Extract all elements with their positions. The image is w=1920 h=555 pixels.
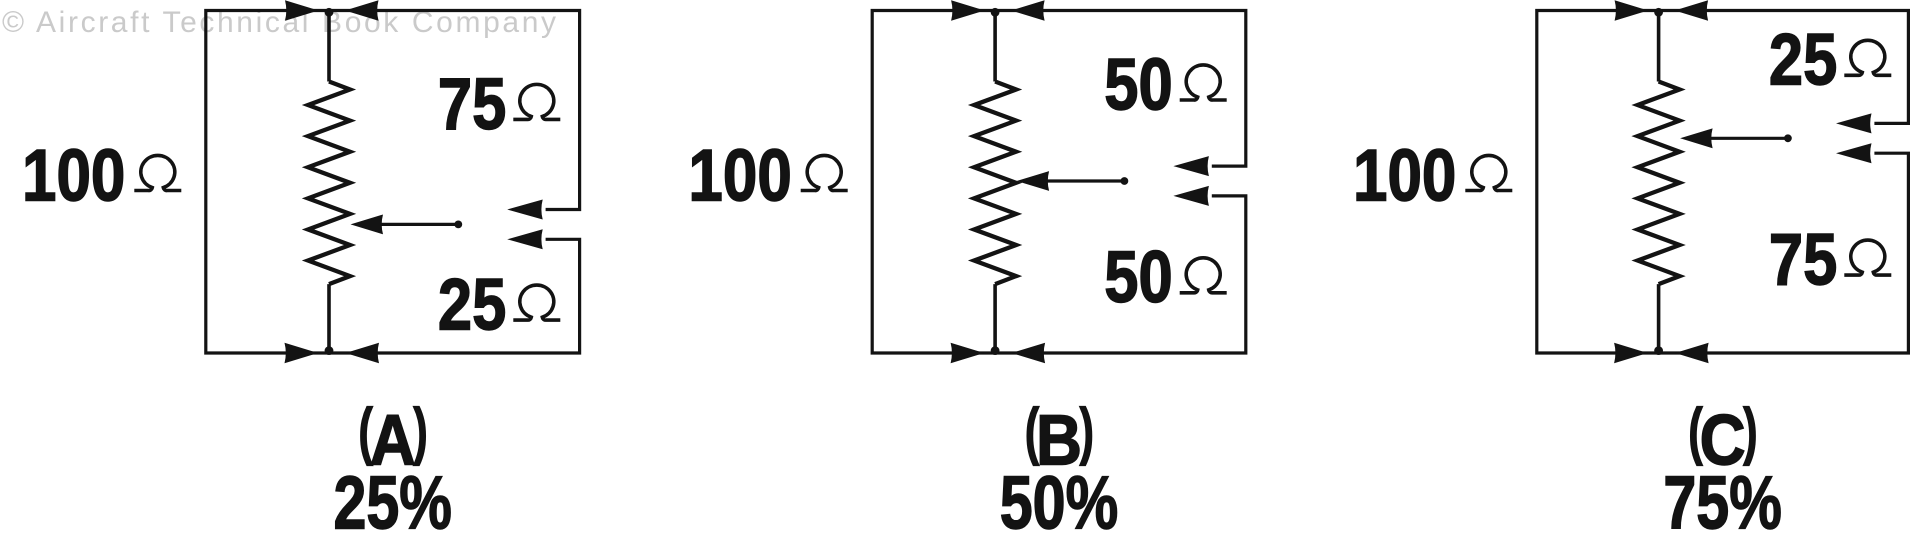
wiper terminal dot: [454, 221, 462, 229]
junction: top node: [325, 8, 334, 17]
ohm symbol of upper portion 50 ohms: [1180, 65, 1227, 100]
wiper arm: arrow into resistor at 75% position: [1709, 137, 1788, 140]
current arrow: upper tap lead toward wiper: [1836, 113, 1872, 133]
ohm symbol of lower portion 25 ohms: [513, 285, 560, 320]
current arrow: into bottom node from right: [1012, 343, 1046, 363]
svg-text:25: 25: [438, 265, 506, 346]
current arrow: into bottom node from right: [1675, 343, 1709, 363]
current arrow: into top node from right: [345, 0, 379, 20]
resistor element: 100 ohm potentiometer winding: [1657, 11, 1661, 82]
ohm symbol of upper portion 75 ohms: [513, 84, 560, 119]
svg-text:75: 75: [438, 64, 506, 145]
wiper arm: arrow into resistor at 50% position: [1045, 179, 1124, 182]
svg-text:100: 100: [688, 135, 791, 216]
resistor element: 100 ohm potentiometer winding: [993, 11, 997, 82]
svg-text:50%: 50%: [1000, 461, 1119, 545]
svg-text:75%: 75%: [1663, 461, 1782, 545]
svg-text:): ): [413, 397, 428, 467]
circuit A: potentiometer at 25% wiper position: [22, 0, 580, 544]
wire: left branch loop (top wire left half, left side, bottom wire left half): [206, 11, 329, 354]
circuit C: potentiometer at 75% wiper position: [1353, 0, 1908, 544]
current arrow: into bottom node from right: [346, 343, 380, 363]
current arrow: into bottom node from left: [1614, 343, 1648, 363]
current arrow: lower tap lead toward wiper: [1173, 186, 1209, 206]
svg-text:): ): [1743, 397, 1758, 467]
wire: top wire right half and upper right branch down to wiper tap: [1659, 11, 1909, 124]
circuit B: potentiometer at 50% wiper position: [688, 0, 1245, 544]
current arrow: into bottom node from left: [951, 343, 985, 363]
svg-text:25: 25: [1769, 20, 1837, 101]
ohm symbol of total resistance label: [134, 155, 181, 190]
junction: top node: [1654, 8, 1663, 17]
ohm symbol of lower portion 75 ohms: [1844, 240, 1891, 275]
junction: bottom node: [325, 346, 334, 355]
current arrow: lower tap lead toward wiper: [507, 229, 543, 249]
wire: left branch loop (top wire left half, left side, bottom wire left half): [1537, 11, 1659, 354]
current arrow: into top node from left: [285, 0, 319, 20]
current arrow: into top node from left: [951, 0, 985, 20]
wiper terminal dot: [1121, 177, 1129, 185]
ohm symbol of total resistance label: [801, 155, 848, 190]
svg-text:25%: 25%: [333, 461, 452, 545]
wiper arm: arrow into resistor at 25% position: [379, 223, 458, 226]
wire: lower right branch from wiper tap and bottom wire right half: [995, 196, 1246, 353]
svg-text:50: 50: [1104, 44, 1172, 125]
ohm symbol of lower portion 50 ohms: [1180, 258, 1227, 293]
current arrow: into top node from right: [1675, 0, 1709, 20]
current arrow: into bottom node from left: [285, 343, 319, 363]
wire: top wire right half and upper right branch down to wiper tap: [995, 11, 1246, 167]
current arrow: into top node from right: [1011, 0, 1045, 20]
ohm symbol of total resistance label: [1465, 155, 1512, 190]
wire: left branch loop (top wire left half, left side, bottom wire left half): [872, 11, 995, 354]
wiper terminal dot: [1784, 134, 1792, 142]
svg-text:100: 100: [22, 135, 125, 216]
svg-text:75: 75: [1769, 220, 1837, 301]
wire: lower right branch from wiper tap and bottom wire right half: [1659, 153, 1909, 353]
current arrow: into top node from left: [1615, 0, 1649, 20]
svg-text:): ): [1080, 397, 1095, 467]
wire: lower right branch from wiper tap and bottom wire right half: [329, 239, 580, 353]
current arrow: upper tap lead toward wiper: [507, 200, 543, 220]
svg-text:50: 50: [1104, 237, 1172, 318]
junction: top node: [991, 8, 1000, 17]
junction: bottom node: [991, 346, 1000, 355]
current arrow: lower tap lead toward wiper: [1836, 143, 1872, 163]
junction: bottom node: [1654, 346, 1663, 355]
svg-text:100: 100: [1353, 135, 1456, 216]
resistor element: 100 ohm potentiometer winding: [327, 11, 331, 82]
wire: top wire right half and upper right branch down to wiper tap: [329, 11, 580, 210]
current arrow: upper tap lead toward wiper: [1173, 156, 1209, 176]
ohm symbol of upper portion 25 ohms: [1844, 40, 1891, 75]
